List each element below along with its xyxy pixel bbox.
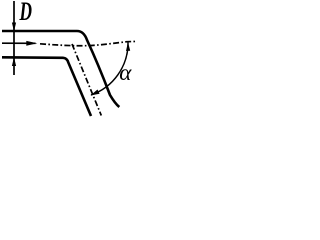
svg-text:D: D <box>19 0 32 26</box>
svg-text:α: α <box>119 60 132 85</box>
